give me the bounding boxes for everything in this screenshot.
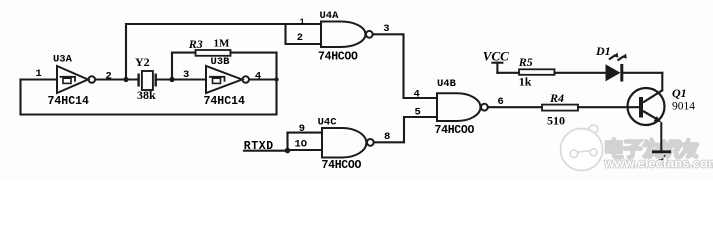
svg-text:U3A: U3A [53, 54, 73, 66]
svg-text:9014: 9014 [672, 101, 695, 113]
svg-text:1: 1 [36, 68, 42, 80]
svg-text:U4B: U4B [437, 78, 457, 90]
svg-text:2: 2 [297, 32, 303, 44]
svg-text:2: 2 [106, 71, 112, 83]
svg-text:5: 5 [415, 107, 421, 119]
svg-text:R3: R3 [188, 37, 203, 51]
svg-text:74HCOO: 74HCOO [322, 159, 362, 172]
svg-text:VCC: VCC [483, 49, 509, 64]
svg-text:www.elecfans.com: www.elecfans.com [604, 156, 713, 171]
svg-text:6: 6 [498, 96, 504, 108]
svg-text:74HCOO: 74HCOO [318, 51, 358, 64]
svg-text:9: 9 [299, 123, 305, 135]
svg-text:3: 3 [383, 23, 389, 35]
svg-text:R4: R4 [549, 91, 564, 105]
svg-text:4: 4 [255, 70, 261, 82]
svg-text:1M: 1M [214, 38, 231, 50]
svg-text:1O: 1O [295, 138, 308, 150]
svg-text:U3B: U3B [211, 56, 231, 68]
svg-text:38k: 38k [137, 88, 156, 102]
svg-text:R5: R5 [518, 55, 533, 69]
svg-text:1: 1 [300, 17, 305, 27]
svg-text:RTXD: RTXD [244, 140, 274, 153]
svg-text:Q1: Q1 [672, 86, 687, 100]
svg-text:1k: 1k [519, 75, 532, 89]
svg-text:U4A: U4A [320, 10, 340, 22]
svg-text:74HC14: 74HC14 [204, 95, 246, 108]
svg-text:74HCOO: 74HCOO [435, 124, 475, 137]
svg-text:Y2: Y2 [135, 55, 150, 69]
svg-text:U4C: U4C [318, 117, 338, 129]
svg-text:8: 8 [384, 131, 390, 143]
svg-text:510: 510 [547, 114, 565, 128]
svg-text:4: 4 [414, 88, 420, 100]
svg-text:3: 3 [183, 69, 189, 81]
svg-text:D1: D1 [595, 44, 611, 58]
svg-text:74HC14: 74HC14 [48, 95, 90, 108]
